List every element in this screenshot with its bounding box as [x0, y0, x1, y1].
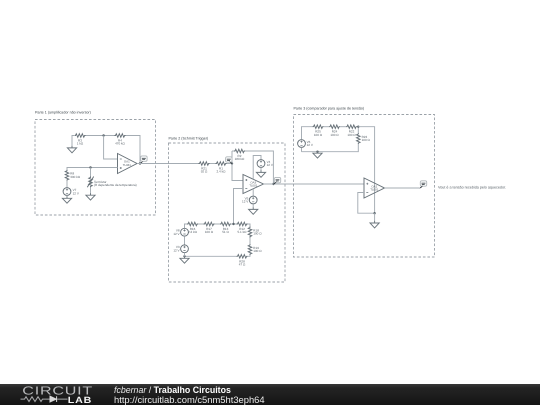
label R1 value [217, 166, 227, 173]
CircuitLab logo [0, 384, 110, 405]
voltage source V5 [249, 196, 257, 204]
svg-text:300 kΩ: 300 kΩ [70, 175, 80, 179]
footer title text [114, 385, 231, 395]
label R28 value [239, 259, 246, 266]
ground under R3 [67, 146, 76, 153]
label V3 value [173, 245, 180, 252]
node tag Vo1 output of OA1 [140, 156, 148, 164]
wire to R2 [232, 150, 234, 152]
svg-text:47 Ω: 47 Ω [239, 263, 246, 267]
dashed section box Parte 2 [169, 143, 286, 282]
svg-text:100 Ω: 100 Ω [253, 232, 262, 236]
wire R2 to output [245, 151, 273, 184]
wire R3 left to ground [72, 136, 74, 146]
junction dot ladder ground [183, 255, 185, 257]
label V6 value [307, 140, 314, 147]
wire V7 to ground [66, 195, 68, 198]
op-amp OA2 [364, 178, 385, 198]
wire V- supply pin [252, 189, 254, 196]
wire V4 to ground [260, 168, 262, 171]
svg-text:100 Ω: 100 Ω [314, 133, 323, 137]
annotation Vout text [438, 185, 506, 189]
svg-text:(R dependente da temperatura): (R dependente da temperatura) [94, 183, 137, 187]
resistor R3 [75, 134, 86, 138]
wire V+ supply pin [253, 156, 261, 180]
wire thermistor to ground [90, 187, 92, 193]
section title Parte 2 [169, 136, 209, 140]
svg-text:TL081: TL081 [370, 188, 379, 192]
svg-text:51 Ω: 51 Ω [222, 230, 229, 234]
wire R18-R19 [249, 238, 251, 245]
wire R23 to bottom rail [302, 144, 359, 152]
label R4 value [115, 138, 125, 145]
svg-text:100 Ω: 100 Ω [205, 230, 214, 234]
ground under V4 [256, 170, 265, 177]
label V4 value [267, 160, 274, 167]
wire minus input to ladder [234, 189, 244, 225]
wire junction down to inverting input [104, 136, 118, 160]
svg-text:12 V: 12 V [73, 191, 80, 195]
junction dot feedback ground [373, 212, 375, 214]
label R21 value [201, 166, 208, 173]
wire OA3 output to comparator input [264, 183, 365, 185]
wire plus node vertical [232, 151, 243, 181]
voltage source V6 [298, 140, 306, 148]
node tag Schmitt input [226, 157, 233, 164]
label R22 value [347, 130, 356, 137]
junction dot ladder tap [232, 223, 234, 225]
svg-text:Parte 3 (comparador para ajust: Parte 3 (comparador para ajuste de tensã… [294, 106, 365, 110]
node junction at R3/R4 [102, 134, 104, 136]
dashed section box Parte 1 [35, 120, 156, 216]
svg-text:12 V: 12 V [173, 232, 180, 236]
wire non-inverting input left [67, 168, 118, 170]
voltage source V4 [257, 160, 265, 168]
svg-text:Parte 1 (amplificador não inve: Parte 1 (amplificador não inversor) [35, 111, 91, 115]
wire minus input feedback loop [358, 193, 375, 214]
svg-text:100 Ω: 100 Ω [347, 133, 356, 137]
svg-text:92 Ω: 92 Ω [201, 170, 208, 174]
svg-text:470 kΩ: 470 kΩ [115, 142, 125, 146]
ground under V5 [249, 207, 258, 214]
label R17 value [205, 227, 214, 234]
wire R19 to bottom rail [248, 255, 251, 256]
wire OA1 output to Schmitt input [137, 163, 199, 165]
wire R13 to tap [231, 223, 237, 225]
svg-text:Vout é a tensão recebida pelo: Vout é a tensão recebida pelo aquecedor. [438, 185, 506, 189]
svg-text:5.1 kΩ: 5.1 kΩ [238, 230, 248, 234]
wire V5 to ground [252, 204, 254, 207]
voltage source V3 [181, 245, 189, 253]
ground under V7 [62, 196, 71, 203]
section title Parte 1 [35, 111, 91, 115]
resistor R23 [357, 133, 361, 144]
wire thermistor branch [90, 168, 92, 177]
resistor R28 [237, 255, 248, 259]
svg-text:2.2 kΩ: 2.2 kΩ [188, 230, 198, 234]
label R18 value [253, 228, 262, 235]
dashed section box Parte 3 [294, 115, 435, 258]
svg-text:12 V: 12 V [307, 143, 314, 147]
wire junction to ground [374, 213, 376, 221]
wire R1 to plus node [227, 163, 233, 165]
svg-text:1 kΩ: 1 kΩ [77, 142, 84, 146]
wire R21 to R1 [210, 163, 216, 165]
resistor R25 [313, 125, 324, 129]
node tag Vout [420, 181, 427, 189]
junction dot OA1 output [139, 162, 141, 164]
wire R12 to right column [248, 224, 251, 227]
resistor R16 [187, 222, 198, 226]
svg-text:TL081: TL081 [249, 184, 258, 188]
wire V3 to ground [184, 253, 186, 256]
wire R17-R13 [215, 223, 221, 225]
label R23 value [362, 135, 371, 142]
label R12 value [238, 227, 248, 234]
wire R3 to R4 [86, 135, 115, 137]
resistor R17 [204, 222, 215, 226]
footer url text [114, 394, 265, 405]
ground ladder [180, 256, 189, 263]
label R24 value [330, 130, 339, 137]
svg-text:TL081: TL081 [123, 163, 132, 167]
label R16 value [188, 227, 198, 234]
label R25 value [314, 130, 323, 137]
wire bottom rail [185, 255, 237, 257]
wire R4 to output corner [126, 136, 141, 164]
op-amp OA3 [243, 175, 264, 194]
junction dot bottom rail ground [316, 151, 318, 153]
ground under thermistor [86, 193, 95, 200]
wire R22 to corner junction [357, 127, 358, 133]
resistor R12 [237, 222, 248, 226]
svg-text:180 kΩ: 180 kΩ [235, 157, 245, 161]
ground comparator divider [313, 151, 322, 158]
resistor R21 [199, 162, 210, 166]
label R3 value [77, 138, 84, 145]
svg-text:100 Ω: 100 Ω [362, 138, 371, 142]
label thermistor [94, 180, 137, 187]
op-amp OA1 [118, 154, 138, 174]
label V8 value [173, 229, 180, 236]
svg-text:12 V: 12 V [173, 248, 180, 252]
resistor R2 [234, 149, 245, 153]
svg-text:100 Ω: 100 Ω [330, 133, 339, 137]
wire R24-R22 [340, 126, 346, 128]
resistor R1 [216, 162, 227, 166]
wire V6 top to rail [302, 127, 313, 140]
label R13 value [222, 227, 229, 234]
label V7 value [73, 188, 80, 195]
svg-text:Parte 2 (Schmitt Trigger): Parte 2 (Schmitt Trigger) [169, 136, 209, 140]
wire R8 to V7 [66, 181, 68, 188]
voltage source V8 [181, 228, 189, 236]
wire rail to comparator plus input [358, 127, 374, 214]
label R2 value [235, 154, 245, 161]
resistor R22 [346, 125, 357, 129]
node junction Schmitt plus input [231, 162, 233, 164]
ladder top rail left corner [185, 224, 188, 228]
thermistor RT [87, 176, 93, 187]
svg-text:2.4 kΩ: 2.4 kΩ [217, 170, 227, 174]
wire R16-R17 [198, 223, 204, 225]
resistor R8 [65, 170, 69, 181]
svg-text:100 Ω: 100 Ω [253, 249, 262, 253]
svg-text:12 V: 12 V [267, 163, 274, 167]
svg-text:12 V: 12 V [242, 200, 249, 204]
resistor R18 [248, 227, 252, 238]
resistor R4 [115, 134, 126, 138]
resistor R13 [220, 222, 231, 226]
section title Parte 3 [294, 106, 365, 110]
label V5 value [242, 196, 249, 203]
junction dot OA3 output [272, 183, 274, 185]
footer bar [0, 384, 540, 405]
junction dot divider top [357, 126, 359, 128]
ground under comparator [370, 221, 379, 228]
label R19 value [253, 246, 262, 253]
node junction thermistor tap [89, 166, 91, 168]
node tag OA3 output [273, 177, 280, 184]
label R8 value [70, 172, 80, 179]
resistor R19 [248, 244, 252, 255]
voltage source V7 [63, 188, 71, 196]
wire V8 to V3 [184, 236, 186, 244]
wire R25-R24 [324, 126, 330, 128]
resistor R24 [329, 125, 340, 129]
wire OA2 output [385, 187, 420, 189]
svg-text:LAB: LAB [68, 395, 92, 405]
